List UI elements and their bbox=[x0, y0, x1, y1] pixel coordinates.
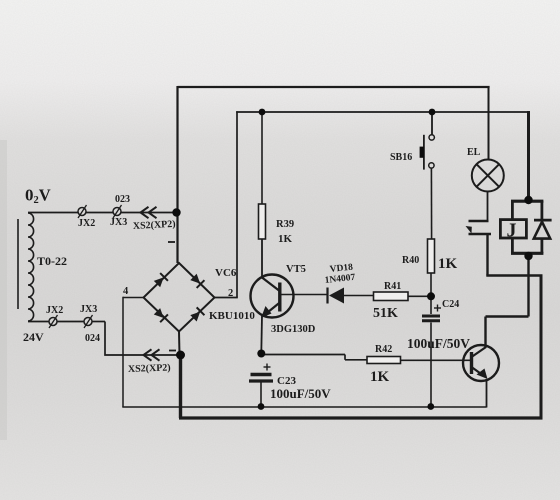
svg-text:R39: R39 bbox=[276, 219, 294, 230]
svg-text:1K: 1K bbox=[438, 256, 458, 272]
svg-text:R42: R42 bbox=[375, 344, 392, 355]
svg-text:VT5: VT5 bbox=[286, 264, 306, 275]
svg-text:4: 4 bbox=[123, 286, 129, 297]
svg-text:C24: C24 bbox=[442, 299, 459, 310]
svg-text:SB16: SB16 bbox=[390, 152, 412, 163]
svg-text:02V: 02V bbox=[25, 186, 51, 207]
svg-text:J: J bbox=[507, 220, 517, 242]
svg-text:EL: EL bbox=[467, 147, 481, 158]
svg-text:JX3: JX3 bbox=[80, 304, 97, 315]
svg-text:XS2(XP2): XS2(XP2) bbox=[128, 363, 171, 375]
svg-text:XS2(XP2): XS2(XP2) bbox=[133, 219, 176, 232]
svg-text:51K: 51K bbox=[373, 306, 398, 321]
svg-text:023: 023 bbox=[115, 194, 130, 205]
svg-text:R41: R41 bbox=[384, 281, 401, 292]
svg-text:JX2: JX2 bbox=[46, 305, 63, 316]
svg-text:JX2: JX2 bbox=[78, 218, 95, 229]
svg-text:KBU1010: KBU1010 bbox=[209, 310, 255, 322]
svg-text:R40: R40 bbox=[402, 255, 419, 266]
svg-text:T0-22: T0-22 bbox=[37, 254, 67, 268]
svg-text:JX3: JX3 bbox=[110, 217, 127, 228]
svg-text:24V: 24V bbox=[23, 330, 44, 344]
svg-text:024: 024 bbox=[85, 333, 100, 344]
svg-text:VC6: VC6 bbox=[215, 267, 237, 279]
svg-text:1K: 1K bbox=[278, 233, 293, 245]
svg-text:100uF/50V: 100uF/50V bbox=[407, 336, 470, 351]
svg-text:2: 2 bbox=[228, 288, 233, 299]
svg-text:1K: 1K bbox=[370, 369, 390, 385]
svg-text:100uF/50V: 100uF/50V bbox=[270, 386, 331, 401]
svg-text:3DG130D: 3DG130D bbox=[271, 324, 316, 335]
